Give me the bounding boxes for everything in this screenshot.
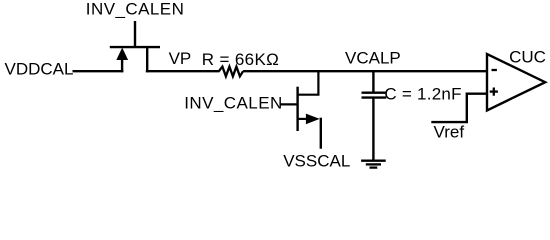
op-amp plus input sign [490,90,498,92]
transistor M2 drain terminal [298,70,319,95]
svg-text:VSSCAL: VSSCAL [283,152,350,171]
wire resistor to op-amp minus input (through VCALP node) [243,70,487,72]
wire capacitor to ground [372,98,374,161]
transistor M1 drain terminal [146,47,148,72]
svg-text:INV_CALEN: INV_CALEN [184,94,283,113]
transistor M1 source terminal with arrow [121,57,123,72]
svg-text:C = 1.2nF: C = 1.2nF [384,85,461,104]
capacitor C top plate [362,91,387,93]
transistor M2 gate lead wire [281,103,298,105]
svg-text:VP: VP [169,49,192,68]
svg-text:INV_CALEN: INV_CALEN [86,0,185,18]
svg-text:Vref: Vref [434,122,465,141]
svg-text:VCALP: VCALP [345,48,401,67]
svg-text:CUC: CUC [509,48,546,67]
transistor M1 channel bar [110,46,160,48]
transistor M1 gate lead [134,21,136,47]
op-amp minus input sign [492,69,497,71]
svg-text:VDDCAL: VDDCAL [5,59,74,78]
op-amp U1 triangle [487,54,545,110]
resistor R zigzag [219,67,243,77]
wire VCALP node to capacitor [372,71,374,93]
ground symbol [361,160,386,162]
transistor M2 source terminal with arrow [298,118,307,120]
wire VDDCAL to M1 source [73,70,124,72]
wire Vref to op-amp plus input [431,94,487,122]
capacitor C bottom plate [362,96,387,98]
wire M2 source to VSSCAL [320,118,322,149]
transistor M2 channel bar [296,87,298,131]
wire M1 drain to resistor [146,70,220,72]
svg-text:R = 66KΩ: R = 66KΩ [202,50,279,69]
